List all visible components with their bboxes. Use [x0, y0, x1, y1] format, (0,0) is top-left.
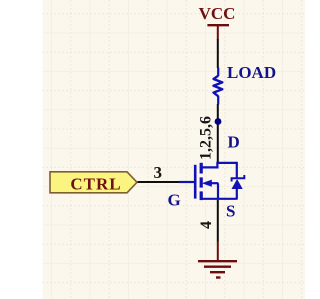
junction dot — [215, 118, 222, 125]
wire resistor to drain — [217, 104, 219, 164]
channel top segment — [200, 163, 203, 174]
svg-text:CTRL: CTRL — [70, 174, 121, 193]
svg-text:S: S — [226, 202, 235, 221]
gate pin — [179, 181, 194, 183]
svg-text:4: 4 — [198, 221, 215, 229]
svg-text:LOAD: LOAD — [227, 63, 276, 82]
drain link — [201, 163, 237, 168]
bulk arrow — [202, 180, 212, 187]
power symbol VCC — [199, 4, 236, 39]
schottky cathode bar — [232, 175, 245, 182]
svg-text:VCC: VCC — [199, 4, 236, 23]
cathode lead — [236, 162, 238, 178]
ground — [198, 241, 237, 278]
port CTRL — [50, 172, 137, 194]
transistor Q1 N-MOSFET — [179, 163, 237, 200]
channel middle segment — [200, 177, 203, 187]
diode triangle — [232, 179, 243, 189]
wire VCC to resistor — [217, 39, 219, 68]
diode D1 schottky (body diode) — [232, 162, 245, 200]
bulk link — [212, 182, 219, 184]
resistor LOAD — [214, 63, 277, 105]
svg-text:1,2,5,6: 1,2,5,6 — [197, 116, 214, 160]
svg-text:G: G — [168, 191, 181, 210]
wire CTRL port to gate — [138, 181, 180, 183]
wire source to ground — [217, 200, 219, 242]
source rail — [201, 198, 237, 200]
channel bottom segment — [200, 191, 203, 200]
anode lead — [236, 189, 238, 200]
gate bar — [194, 165, 197, 199]
svg-text:3: 3 — [154, 163, 163, 182]
svg-text:D: D — [228, 133, 240, 152]
